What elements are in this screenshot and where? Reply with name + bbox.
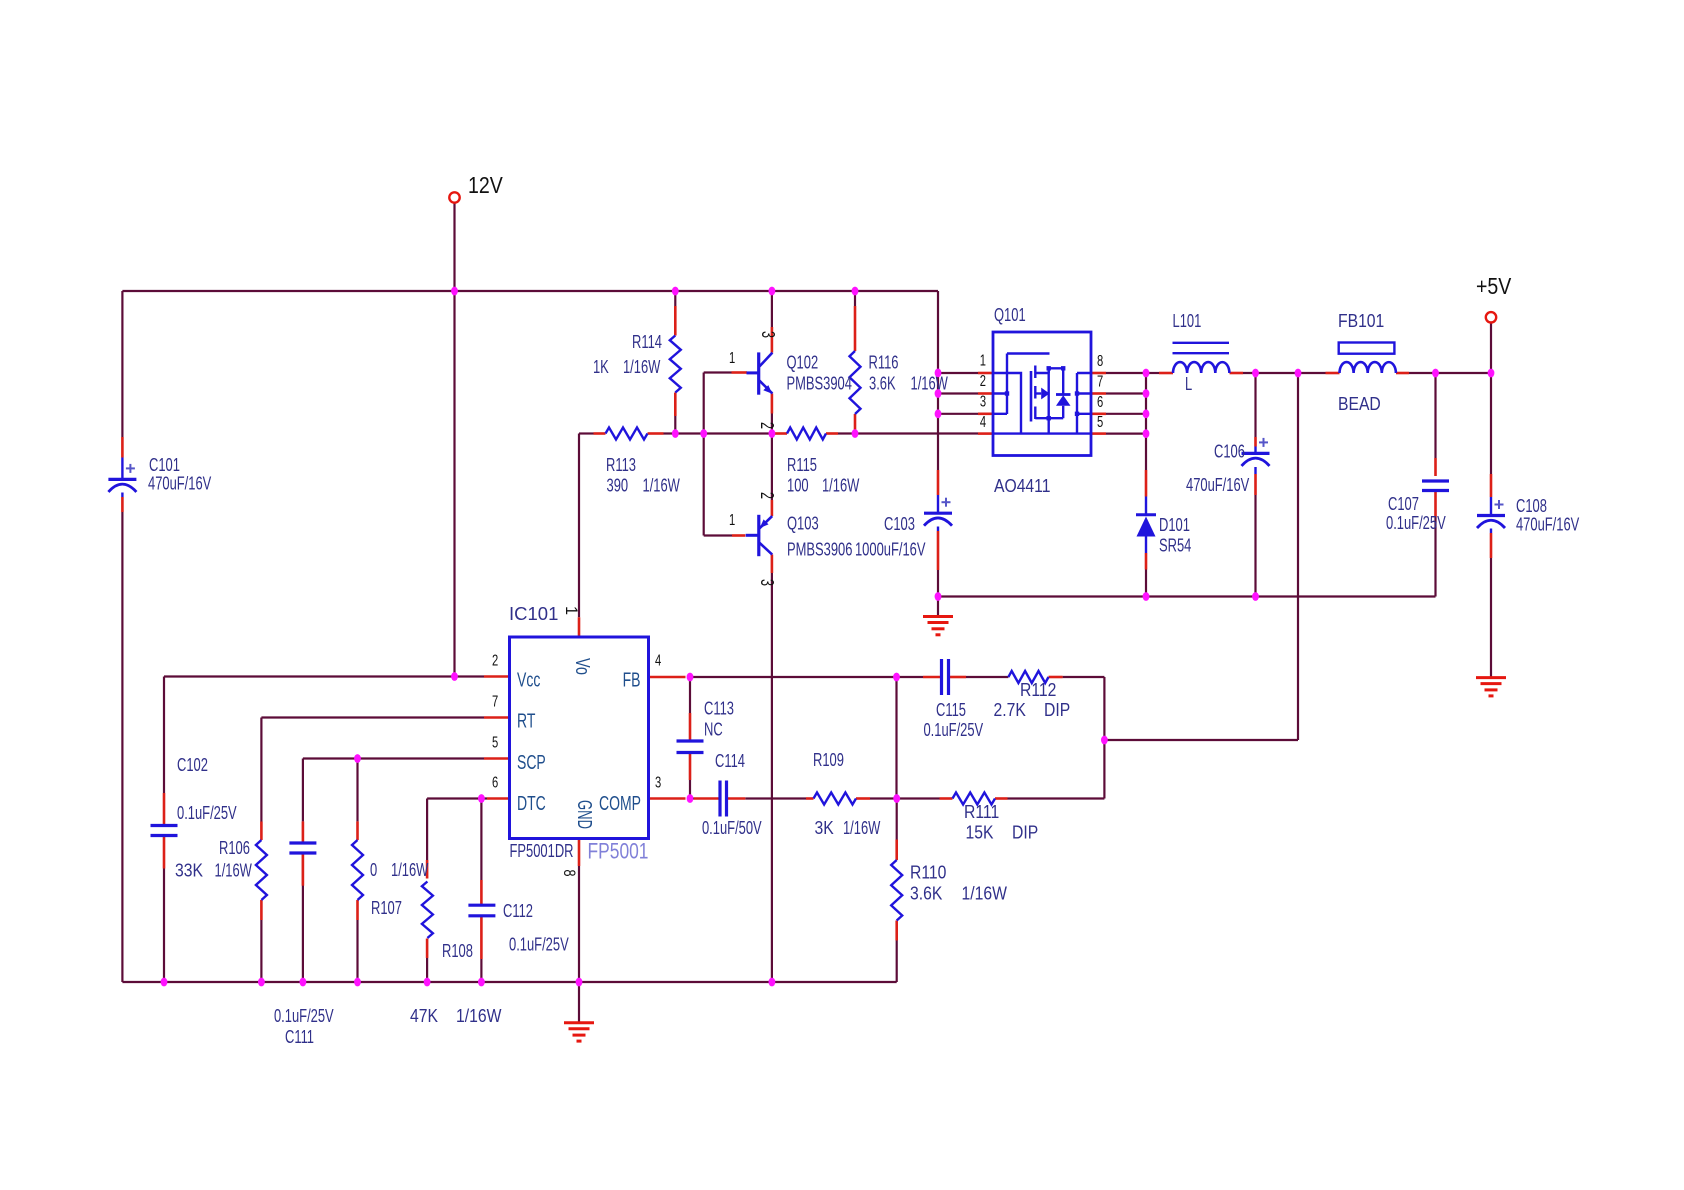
svg-text:C108: C108 [1516, 497, 1547, 517]
svg-text:R116: R116 [869, 353, 899, 373]
stub R115 left [775, 432, 788, 435]
capacitor C103 [924, 495, 952, 531]
value L101 L [1185, 375, 1192, 395]
stub C101 top [121, 437, 124, 458]
svg-text:6: 6 [1097, 392, 1103, 411]
svg-text:8: 8 [1097, 351, 1103, 370]
svg-text:FP5001DR: FP5001DR [510, 842, 574, 862]
svg-text:1/16W: 1/16W [215, 861, 252, 881]
stub IC pin7 [484, 716, 510, 719]
label C113 [704, 699, 734, 719]
svg-text:4: 4 [980, 412, 986, 431]
value Q103 PMBS3906 [787, 540, 853, 560]
svg-text:1/16W: 1/16W [456, 1005, 502, 1027]
svg-text:R108: R108 [442, 942, 473, 962]
svg-text:0.1uF/25V: 0.1uF/25V [1386, 514, 1446, 534]
svg-text:1/16W: 1/16W [911, 374, 948, 394]
rating R108 1/16W [456, 1005, 502, 1027]
stub Q103 collector [771, 555, 774, 574]
svg-text:5: 5 [1097, 412, 1103, 431]
svg-text:0.1uF/25V: 0.1uF/25V [177, 804, 237, 824]
label C103 [884, 515, 915, 535]
stub R107 top [356, 821, 359, 840]
resistor R107 [352, 840, 363, 900]
capacitor C106 [1242, 438, 1270, 474]
pin 3 Q102 [758, 331, 778, 338]
stub R107 bottom [356, 900, 359, 920]
port 12V terminal [449, 192, 459, 202]
svg-text:R111: R111 [964, 801, 999, 823]
note R111 DIP [1012, 821, 1038, 843]
pin 1 Q101 [980, 350, 986, 369]
value R106 33K [175, 859, 203, 881]
wire RT row [261, 716, 484, 718]
svg-text:390: 390 [607, 476, 629, 496]
stub IC pin2 [484, 675, 510, 678]
svg-text:3.6K: 3.6K [869, 374, 896, 394]
stub R114 bottom [674, 393, 677, 417]
ground under C103 [923, 597, 953, 635]
svg-text:47K: 47K [410, 1005, 438, 1027]
stub C115 left [923, 676, 940, 679]
stub C112 bottom [480, 916, 483, 959]
svg-text:0.1uF/25V: 0.1uF/25V [924, 721, 984, 741]
label R106 [219, 839, 250, 859]
pin name FB [623, 668, 641, 691]
op-amp U1 IC101 FP5001 box [510, 637, 649, 839]
svg-text:R115: R115 [787, 456, 817, 476]
svg-text:3: 3 [655, 772, 661, 791]
wire switch node vertical [1145, 373, 1147, 470]
stub IC pin6 [487, 797, 510, 800]
svg-text:C114: C114 [715, 752, 745, 772]
stub L101 left [1159, 372, 1173, 375]
svg-text:PMBS3906: PMBS3906 [787, 540, 853, 560]
svg-text:C111: C111 [285, 1028, 314, 1048]
svg-text:15K: 15K [966, 821, 994, 843]
resistor R112 [1008, 671, 1048, 683]
stub R110 bottom [895, 921, 898, 941]
pin name GND [573, 800, 595, 829]
wire R107 branch [356, 759, 358, 983]
pin name Vo [571, 658, 593, 675]
rating R109 1/16W [843, 819, 880, 839]
svg-text:+5V: +5V [1476, 274, 1512, 300]
stub R114 top [674, 306, 677, 336]
stub C114 left [694, 797, 719, 800]
stub R106 bottom [260, 900, 263, 920]
svg-text:PMBS3904: PMBS3904 [787, 374, 853, 394]
value FB101 BEAD [1338, 393, 1381, 415]
resistor R109 [814, 793, 857, 805]
svg-text:DIP: DIP [1012, 821, 1038, 843]
stub C112 top [480, 880, 483, 905]
port +5V terminal [1486, 312, 1496, 322]
capacitor C113 [677, 741, 704, 753]
wire divider right vertical [1103, 677, 1105, 799]
svg-text:IC101: IC101 [509, 603, 558, 624]
wire C111 branch [302, 759, 304, 983]
svg-text:1000uF/16V: 1000uF/16V [855, 540, 926, 560]
label +5V [1476, 274, 1512, 300]
stub IC pin8 GND [578, 839, 581, 867]
stub R111 right [995, 797, 1008, 800]
wire R110 branch [896, 799, 898, 983]
stub R109 left [806, 797, 814, 800]
capacitor C101 [108, 458, 136, 498]
label C111 [285, 1028, 314, 1048]
stub R111 left [940, 797, 953, 800]
svg-text:DTC: DTC [517, 791, 546, 814]
value C115 0.1uF/25V [924, 721, 984, 741]
wire ground rail mid [938, 595, 1436, 597]
stub C103 bottom [937, 531, 940, 570]
svg-text:1: 1 [562, 606, 581, 615]
stub R116 bottom [854, 414, 857, 430]
wire Q101 pin8 row [1106, 372, 1146, 374]
stub R106 top [260, 822, 263, 841]
stub C114 right [728, 797, 745, 800]
value R116 3.6K [869, 374, 896, 394]
stub C111 bottom [302, 853, 305, 886]
value R115 100 [787, 476, 809, 496]
stub R110 top [895, 840, 898, 861]
svg-text:Vo: Vo [571, 658, 593, 675]
resistor R115 [787, 428, 826, 440]
svg-text:2.7K: 2.7K [994, 699, 1027, 721]
transistor Q103 [746, 515, 773, 556]
stub C115 right [950, 676, 966, 679]
svg-text:R109: R109 [813, 751, 844, 771]
svg-text:1: 1 [729, 348, 735, 367]
svg-text:12V: 12V [468, 173, 503, 199]
rating R113 1/16W [643, 476, 680, 496]
stub C113 bottom [689, 754, 692, 780]
svg-text:R106: R106 [219, 839, 250, 859]
wire C112 branch [480, 799, 482, 983]
diode D101 [1136, 497, 1156, 554]
pin 2 Q101 [980, 371, 986, 390]
svg-text:7: 7 [1097, 371, 1103, 390]
wire FB-COMP tie [895, 677, 897, 799]
note R112 DIP [1044, 699, 1070, 721]
pin name SCP [517, 750, 546, 773]
value R107 0 [370, 861, 377, 881]
label FP5001 [588, 839, 649, 864]
value R114 1K [593, 358, 609, 378]
svg-text:0.1uF/50V: 0.1uF/50V [702, 819, 762, 839]
stub C108 top [1490, 474, 1493, 497]
pin 5 Q101 [1097, 412, 1103, 431]
stub L101 right [1230, 372, 1244, 375]
label FB101 [1338, 310, 1384, 332]
svg-text:3: 3 [757, 579, 777, 586]
svg-text:3.6K: 3.6K [910, 882, 943, 904]
svg-text:R112: R112 [1020, 679, 1056, 701]
label Q103 [787, 514, 819, 534]
stub C108 bottom [1490, 533, 1493, 558]
value R112 2.7K [994, 699, 1027, 721]
label R113 [606, 456, 636, 476]
pin name RT [517, 709, 536, 732]
label C115 [936, 701, 966, 721]
wire DTC row [427, 797, 487, 799]
stub Q102 emitter [771, 394, 774, 414]
wire base tie vertical [703, 373, 705, 536]
stub Q101 pin1 [978, 372, 993, 375]
svg-text:AO4411: AO4411 [994, 475, 1051, 497]
label C114 [715, 752, 745, 772]
svg-text:1/16W: 1/16W [822, 476, 859, 496]
wire C107 branch [1434, 373, 1436, 597]
wire IC GND vertical [578, 866, 580, 982]
svg-text:SR54: SR54 [1159, 536, 1191, 556]
svg-text:R107: R107 [371, 899, 402, 919]
pin 7 IC [492, 691, 498, 710]
ground under IC GND [564, 982, 594, 1041]
label L101 [1173, 312, 1202, 332]
wire R106 branch [260, 718, 262, 983]
pin 5 IC [492, 732, 498, 751]
svg-text:0: 0 [370, 861, 377, 881]
resistor R108 [422, 882, 433, 939]
label C106 [1214, 442, 1245, 462]
stub C111 top [302, 821, 305, 843]
stub C107 bottom [1434, 491, 1437, 518]
svg-text:Q102: Q102 [787, 353, 819, 373]
label R108 [442, 942, 473, 962]
wire Q101 pin7 row [1106, 392, 1146, 394]
label D101 [1159, 516, 1190, 536]
wire Q103 collector down [771, 573, 773, 982]
wire Q103 emitter up [771, 434, 773, 501]
stub C103 top [937, 470, 940, 495]
pin 2 IC [492, 650, 498, 669]
pin 1 Q103 [729, 510, 735, 529]
svg-text:7: 7 [492, 691, 498, 710]
svg-text:NC: NC [704, 720, 723, 740]
svg-text:0.1uF/25V: 0.1uF/25V [274, 1007, 334, 1027]
wire Q101 pin1 row [938, 372, 978, 374]
pin 8 Q101 [1097, 351, 1103, 370]
pin 1 Q102 [729, 348, 735, 367]
stub Q101 pin7 [1091, 392, 1106, 395]
wire R114 vertical [674, 291, 676, 434]
resistor R114 [670, 336, 681, 393]
svg-text:Q103: Q103 [787, 514, 819, 534]
svg-text:RT: RT [517, 709, 536, 732]
stub Q101 pin4 [978, 432, 993, 435]
value C113 NC [704, 720, 723, 740]
svg-text:FP5001: FP5001 [588, 839, 649, 864]
svg-text:C113: C113 [704, 699, 734, 719]
pin 7 Q101 [1097, 371, 1103, 390]
svg-text:1: 1 [980, 350, 986, 369]
svg-text:DIP: DIP [1044, 699, 1070, 721]
capacitor C107 [1422, 481, 1449, 491]
stub FB101 right [1396, 372, 1409, 375]
stub Q101 pin8 [1091, 372, 1106, 375]
capacitor C102 [151, 826, 178, 836]
wire C106 branch [1254, 373, 1256, 597]
stub Q101 pin2 [978, 392, 993, 395]
label R110 [910, 861, 946, 883]
wire 12V bus vertical [937, 291, 939, 597]
svg-text:3: 3 [758, 331, 778, 338]
label 12V [468, 173, 503, 199]
stub Q101 pin6 [1091, 412, 1106, 415]
wire D101 bottom [1145, 570, 1147, 597]
svg-text:FB: FB [623, 668, 641, 691]
stub Q102 base [732, 371, 748, 374]
stub IC pin5 [484, 757, 510, 760]
stub R109 right [856, 797, 870, 800]
stub Q101 pin5 [1091, 432, 1106, 435]
wire 12V feed vertical [453, 203, 455, 677]
label C102 [177, 756, 208, 776]
wire Q101 pin5 row [1106, 433, 1146, 435]
svg-text:R114: R114 [632, 333, 662, 353]
label C108 [1516, 497, 1547, 517]
svg-text:4: 4 [655, 650, 661, 669]
value C112 0.1uF/25V [509, 935, 569, 955]
label R116 [869, 353, 899, 373]
value Q102 PMBS3904 [787, 374, 853, 394]
svg-text:Q101: Q101 [994, 306, 1026, 326]
wire R108 branch [426, 799, 428, 983]
wire output rail [1146, 372, 1491, 374]
svg-text:R110: R110 [910, 861, 946, 883]
stub D101 bottom [1145, 553, 1148, 570]
svg-text:1K: 1K [593, 358, 609, 378]
label FP5001DR [510, 842, 574, 862]
svg-text:C107: C107 [1388, 495, 1419, 515]
svg-text:SCP: SCP [517, 750, 546, 773]
stub IC pin4 FB [649, 676, 686, 679]
resistor R111 [953, 793, 996, 805]
stub C101 bottom [121, 497, 124, 512]
svg-text:FB101: FB101 [1338, 310, 1384, 332]
pin name DTC [517, 791, 546, 814]
value R108 47K [410, 1005, 438, 1027]
label IC101 [509, 603, 558, 624]
value R113 390 [607, 476, 629, 496]
pin 3 IC [655, 772, 661, 791]
svg-text:2: 2 [492, 650, 498, 669]
value C108 470uF/16V [1516, 515, 1580, 535]
value C107 0.1uF/25V [1386, 514, 1446, 534]
svg-text:C112: C112 [503, 902, 533, 922]
capacitor C112 [468, 905, 495, 916]
stub R113 left [594, 432, 606, 435]
stub Q101 pin3 [978, 412, 993, 415]
wire COMP row [690, 797, 1104, 799]
wire gate node row [579, 432, 978, 434]
label R111 [964, 801, 999, 823]
svg-text:C115: C115 [936, 701, 966, 721]
stub Q103 emitter [771, 500, 774, 516]
svg-text:1/16W: 1/16W [623, 358, 660, 378]
resistor R116 [850, 351, 861, 414]
value C114 0.1uF/50V [702, 819, 762, 839]
svg-text:C102: C102 [177, 756, 208, 776]
transistor Q102 [747, 352, 773, 394]
pin 4 Q101 [980, 412, 986, 431]
label C112 [503, 902, 533, 922]
wire bottom ground rail [122, 981, 896, 983]
svg-text:470uF/16V: 470uF/16V [1516, 515, 1580, 535]
pin 3 Q103 [757, 579, 777, 586]
svg-text:3K: 3K [815, 817, 835, 839]
value C111 0.1uF/25V [274, 1007, 334, 1027]
wire Vo vertical [578, 434, 580, 618]
value R111 15K [966, 821, 994, 843]
value D101 SR54 [1159, 536, 1191, 556]
svg-text:2: 2 [757, 422, 777, 429]
rating R110 1/16W [962, 882, 1008, 904]
svg-text:8: 8 [560, 870, 579, 877]
rating R116 1/16W [911, 374, 948, 394]
pin 3 Q101 [980, 391, 986, 410]
svg-text:COMP: COMP [599, 791, 641, 814]
capacitor C114 [720, 781, 727, 817]
wire R116 vertical [854, 291, 856, 434]
rating R106 1/16W [215, 861, 252, 881]
wire feedback tap horizontal [1104, 739, 1298, 741]
stub C106 bottom [1254, 474, 1257, 495]
stub R112 right [1049, 676, 1063, 679]
label R109 [813, 751, 844, 771]
stub D101 top [1145, 470, 1148, 497]
svg-text:2: 2 [980, 371, 986, 390]
value R109 3K [815, 817, 835, 839]
wire Q102 base lead [704, 371, 732, 373]
wire left C101 branch vertical [121, 291, 123, 982]
ground under C108 [1476, 678, 1506, 696]
label C107 [1388, 495, 1419, 515]
svg-text:R113: R113 [606, 456, 636, 476]
capacitor C111 [289, 843, 316, 853]
inductor L101 [1173, 343, 1230, 373]
svg-text:C101: C101 [149, 456, 180, 476]
wire feedback tap vertical [1297, 373, 1299, 740]
wire top 12V rail [122, 290, 938, 292]
label C101 [149, 456, 180, 476]
stub Q102 collector [771, 327, 774, 353]
stub R116 top [854, 306, 857, 351]
svg-text:BEAD: BEAD [1338, 393, 1381, 415]
pin 1 IC [562, 606, 581, 615]
svg-text:GND: GND [573, 800, 595, 829]
label R107 [371, 899, 402, 919]
wire Q103 base lead [704, 534, 732, 536]
pin 6 Q101 [1097, 392, 1103, 411]
svg-text:3: 3 [980, 391, 986, 410]
svg-text:1/16W: 1/16W [843, 819, 880, 839]
stub IC pin3 COMP [649, 797, 686, 800]
wire C102 branch [163, 677, 165, 983]
svg-text:470uF/16V: 470uF/16V [1186, 476, 1250, 496]
pin 4 IC [655, 650, 661, 669]
wire Q101 pin2 row [938, 392, 978, 394]
ferrite bead FB101 [1339, 343, 1396, 374]
value C102 0.1uF/25V [177, 804, 237, 824]
stub C102 bottom [163, 836, 166, 869]
capacitor C108 [1477, 497, 1505, 533]
rating R114 1/16W [623, 358, 660, 378]
svg-text:1/16W: 1/16W [643, 476, 680, 496]
wire Q102 collector up [771, 291, 773, 327]
